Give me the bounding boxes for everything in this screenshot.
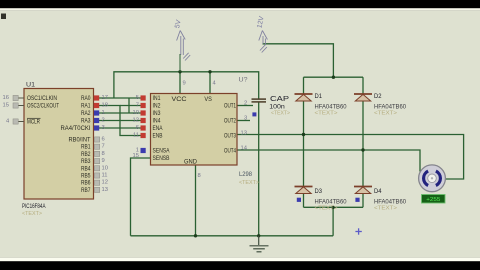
svg-text:<TEXT>: <TEXT>	[315, 206, 338, 212]
svg-text:OSC2/CLKOUT: OSC2/CLKOUT	[27, 104, 59, 110]
svg-text:RB3: RB3	[81, 159, 91, 165]
ic U1 PIC16F84A	[3, 82, 108, 218]
pin RB 6	[95, 137, 100, 142]
svg-text:11: 11	[102, 173, 108, 179]
wire D1 top lead	[303, 77, 305, 93]
svg-text:<TEXT>: <TEXT>	[374, 206, 397, 212]
svg-text:100n: 100n	[269, 103, 285, 110]
svg-text:+255: +255	[426, 197, 440, 203]
svg-text:OUT2: OUT2	[224, 119, 236, 125]
wire leg B vertical	[362, 101, 364, 186]
wire 12V feed	[263, 44, 334, 77]
power terminal 12V	[256, 15, 267, 52]
wire D2 top lead	[362, 77, 364, 93]
wire diode top rail	[304, 76, 364, 78]
svg-text:OUT1: OUT1	[224, 104, 236, 110]
pin RB 13	[95, 187, 100, 192]
pin IN2 7	[141, 103, 146, 108]
svg-text:9: 9	[183, 81, 186, 87]
svg-text:SENSA: SENSA	[153, 149, 170, 155]
wire OUT2 stub	[237, 120, 250, 122]
svg-text:13: 13	[241, 130, 247, 136]
pin IN3 10	[141, 110, 146, 115]
wire SENSB to ground rail	[131, 158, 151, 236]
capacitor CAP 100n	[252, 94, 291, 116]
svg-text:2: 2	[102, 118, 105, 124]
svg-text:2: 2	[244, 100, 247, 106]
pin indicator D3	[297, 198, 301, 202]
pin 4	[19, 121, 25, 123]
svg-text:MCLR: MCLR	[27, 120, 40, 126]
wire IN3 branch step	[128, 98, 130, 113]
wire RA0 to IN1	[99, 97, 141, 99]
svg-text:IN4: IN4	[153, 119, 162, 125]
wire bottom rail riser	[332, 207, 334, 236]
wire IN2 branch	[120, 105, 141, 107]
pin IN1 5	[141, 95, 146, 100]
svg-text:<TEXT>: <TEXT>	[315, 111, 338, 117]
svg-text:GND: GND	[184, 160, 198, 166]
svg-text:16: 16	[3, 95, 9, 101]
svg-text:RB1: RB1	[81, 145, 91, 151]
svg-text:OUT4: OUT4	[224, 149, 236, 155]
svg-text:RA0: RA0	[81, 96, 91, 102]
svg-text:IN2: IN2	[153, 104, 162, 110]
pin RB 10	[95, 166, 100, 171]
svg-text:RB2: RB2	[81, 152, 91, 158]
diode D3	[295, 187, 348, 212]
wire ground rail	[131, 235, 334, 237]
svg-text:RA3: RA3	[81, 119, 91, 125]
marker blue cross	[355, 228, 361, 234]
svg-text:14: 14	[241, 145, 248, 151]
pin RA 18	[94, 103, 99, 108]
wire OUT4 row to motor left	[237, 150, 420, 172]
svg-text:15: 15	[3, 103, 9, 109]
motor rpm readout	[422, 195, 446, 204]
svg-text:ENB: ENB	[153, 134, 163, 140]
diode D1	[295, 93, 348, 117]
pin 16	[19, 97, 25, 99]
svg-text:PIC16F84A: PIC16F84A	[22, 203, 46, 210]
svg-text:RA4/T0CKI: RA4/T0CKI	[61, 126, 91, 132]
svg-text:9: 9	[102, 158, 105, 164]
wire OUT3 row to motor right	[237, 135, 464, 180]
svg-text:3: 3	[102, 125, 105, 131]
wire 5V rail	[114, 72, 259, 99]
svg-text:RB5: RB5	[81, 174, 91, 180]
svg-text:5: 5	[136, 95, 139, 101]
pin RB 7	[95, 144, 100, 149]
svg-text:CAP: CAP	[270, 94, 289, 103]
svg-text:RB0/INT: RB0/INT	[69, 138, 91, 144]
wire diode bottom rail	[304, 206, 364, 208]
wire RA4 to ENA	[99, 127, 141, 129]
junction dots	[178, 70, 364, 237]
svg-text:7: 7	[102, 144, 105, 150]
pin IN4 12	[141, 118, 146, 123]
svg-text:8: 8	[102, 151, 105, 157]
pin RB 12	[95, 180, 100, 185]
wire RA3 to IN4	[99, 120, 141, 122]
svg-text:VCC: VCC	[172, 97, 188, 103]
svg-text:1: 1	[102, 110, 105, 116]
motor	[419, 165, 446, 203]
svg-text:8: 8	[198, 173, 201, 179]
svg-text:D2: D2	[374, 93, 382, 100]
pin ENB 11	[141, 133, 146, 138]
svg-text:11: 11	[133, 133, 139, 139]
svg-text:12: 12	[133, 118, 139, 124]
wire RA2 to IN3	[99, 112, 141, 114]
wire L298 GND pin 8	[195, 165, 197, 236]
pin SENSA 1	[141, 148, 146, 153]
svg-text:3: 3	[244, 115, 247, 121]
svg-text:IN1: IN1	[153, 96, 162, 102]
diode D4	[354, 187, 407, 212]
svg-text:D3: D3	[315, 188, 323, 195]
pin RA 3	[94, 125, 99, 130]
wire OUT1 stub	[237, 105, 253, 107]
corner artifact	[1, 14, 6, 20]
svg-text:18: 18	[102, 103, 108, 109]
pin RA 1	[94, 110, 99, 115]
svg-text:OUT3: OUT3	[224, 134, 236, 140]
pin RB 9	[95, 159, 100, 164]
wire RA1 step to ENB	[99, 106, 141, 136]
svg-text:RB4: RB4	[81, 166, 91, 172]
ic U? L298	[133, 77, 259, 187]
svg-text:RA1: RA1	[81, 104, 91, 110]
svg-text:<TEXT>: <TEXT>	[374, 111, 397, 117]
svg-text:17: 17	[102, 95, 108, 101]
svg-text:OSC1/CLKIN: OSC1/CLKIN	[27, 96, 57, 102]
svg-text:6: 6	[136, 125, 139, 131]
svg-text:U1: U1	[26, 82, 36, 89]
svg-text:15: 15	[133, 153, 139, 159]
ground	[250, 236, 269, 252]
wire L298 VS pin 4	[209, 72, 211, 94]
svg-text:RB7: RB7	[81, 188, 91, 194]
svg-text:RA2: RA2	[81, 111, 91, 117]
svg-text:<TEXT>: <TEXT>	[271, 110, 290, 116]
svg-text:VS: VS	[204, 97, 212, 103]
svg-text:12: 12	[102, 180, 108, 186]
pin indicator D4	[355, 198, 359, 202]
svg-text:10: 10	[102, 165, 108, 171]
pin 15	[19, 105, 25, 107]
svg-text:ENA: ENA	[153, 126, 163, 132]
svg-text:7: 7	[136, 103, 139, 109]
svg-text:U?: U?	[239, 77, 249, 84]
power terminal 5V	[174, 19, 190, 72]
pin ENA 6	[141, 125, 146, 130]
pin RA 2	[94, 118, 99, 123]
svg-text:L298: L298	[239, 171, 253, 178]
svg-text:D4: D4	[374, 188, 382, 195]
svg-text:SENSB: SENSB	[153, 156, 170, 162]
wire D3 bottom lead	[303, 193, 305, 207]
svg-text:IN3: IN3	[153, 111, 162, 117]
wire cap lower lead	[258, 102, 260, 235]
svg-text:<TEXT>: <TEXT>	[22, 211, 42, 217]
wire L298 VCC pin 9	[179, 72, 181, 94]
wire leg A vertical	[303, 101, 305, 186]
pin RB 8	[95, 151, 100, 156]
svg-text:RB6: RB6	[81, 181, 91, 187]
pin RA 17	[94, 95, 99, 100]
svg-text:D1: D1	[315, 93, 323, 100]
svg-text:10: 10	[133, 110, 139, 116]
svg-text:13: 13	[102, 187, 108, 193]
wire D4 bottom lead	[362, 193, 364, 207]
svg-text:<TEXT>: <TEXT>	[239, 180, 259, 186]
svg-text:6: 6	[102, 137, 105, 143]
diode D2	[354, 93, 407, 117]
pin RB 11	[95, 173, 100, 178]
floating OUT2 indicator	[252, 112, 256, 116]
